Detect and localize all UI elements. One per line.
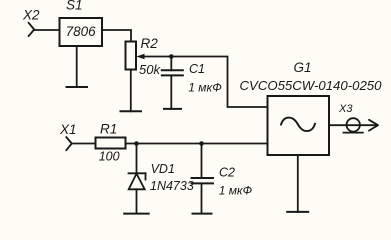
svg-text:CVCO55CW-0140-0250: CVCO55CW-0140-0250 (240, 78, 383, 93)
svg-text:7806: 7806 (66, 24, 97, 39)
svg-text:R2: R2 (141, 36, 159, 51)
svg-text:X3: X3 (338, 103, 353, 115)
svg-text:G1: G1 (294, 60, 312, 75)
svg-text:X1: X1 (59, 122, 77, 137)
svg-text:X2: X2 (22, 7, 40, 22)
svg-text:C1: C1 (189, 62, 205, 76)
svg-text:1 мкФ: 1 мкФ (188, 80, 222, 94)
svg-text:50k: 50k (139, 62, 161, 77)
svg-text:C2: C2 (219, 165, 235, 179)
svg-text:1 мкФ: 1 мкФ (219, 183, 253, 197)
svg-text:VD1: VD1 (151, 162, 175, 176)
svg-text:S1: S1 (66, 0, 83, 13)
svg-text:R1: R1 (100, 122, 117, 137)
svg-text:1N4733: 1N4733 (150, 179, 194, 193)
svg-text:100: 100 (99, 150, 120, 164)
